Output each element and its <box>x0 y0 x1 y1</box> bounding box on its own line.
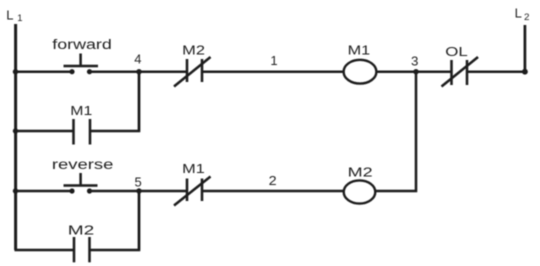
svg-text:2: 2 <box>524 12 530 23</box>
label M2 coil <box>348 165 373 180</box>
wire rung2 segment M1 contact to M2 coil <box>202 190 344 193</box>
svg-text:M1: M1 <box>348 43 371 58</box>
svg-text:M1: M1 <box>70 103 92 118</box>
label M1 seal-in <box>70 103 92 118</box>
wire node 4 vertical branch <box>138 72 141 131</box>
node L2 label <box>515 6 530 24</box>
node 1 label <box>270 53 277 68</box>
svg-text:M2: M2 <box>182 43 205 58</box>
contact M2 normally-open (seal-in) <box>74 237 90 262</box>
node 5 label <box>135 174 142 189</box>
label forward <box>52 37 112 52</box>
svg-text:reverse: reverse <box>52 157 114 172</box>
coil M2 <box>344 180 376 203</box>
node L1 label <box>6 8 22 25</box>
contact M2 normally-closed (rung1) <box>174 57 211 87</box>
wire node 5 vertical branch <box>138 191 141 250</box>
wire rung1 segment rail to forward button <box>15 70 73 73</box>
node 3 junction dot <box>413 69 418 74</box>
wire node 3 vertical to rung2 <box>376 72 417 191</box>
svg-text:1: 1 <box>17 13 22 24</box>
svg-text:L: L <box>6 8 13 23</box>
svg-text:5: 5 <box>135 174 142 189</box>
wire right rail L2 <box>524 25 527 72</box>
node 4 label <box>134 52 141 67</box>
wire M1 seal-in branch right to node 4 <box>90 72 139 131</box>
label M1 contact rung2 <box>182 161 205 176</box>
node 4 junction dot <box>136 69 141 74</box>
svg-text:M1: M1 <box>182 161 205 176</box>
wire rung2 segment rail to reverse button <box>15 190 73 193</box>
contact M1 normally-closed (rung2) <box>174 177 211 206</box>
wire rung2 segment reverse button to M1 contact <box>89 190 187 193</box>
wire rung1 segment forward button to M2 contact <box>89 70 187 73</box>
label M2 contact rung1 <box>182 43 205 58</box>
svg-text:2: 2 <box>269 173 277 188</box>
junction dot rail rung1 <box>13 69 18 74</box>
svg-text:M2: M2 <box>68 223 95 238</box>
label OL <box>445 44 468 59</box>
label reverse <box>52 157 114 172</box>
svg-text:L: L <box>515 6 522 21</box>
wire M2 seal-in branch left <box>15 249 75 252</box>
svg-text:forward: forward <box>52 37 112 52</box>
svg-text:4: 4 <box>134 52 141 67</box>
wire left rail L1 <box>14 24 17 250</box>
junction dot rail rung2 <box>13 188 18 193</box>
label M1 coil <box>348 43 371 58</box>
contact M1 normally-open (seal-in) <box>74 119 91 145</box>
wire rung1 segment M1 coil to OL contact <box>376 70 452 73</box>
node 3 label <box>411 54 418 69</box>
node 2 label <box>269 173 277 188</box>
wire M1 seal-in branch left <box>15 130 74 133</box>
pushbutton forward (NO) <box>64 54 99 75</box>
svg-text:OL: OL <box>445 44 468 59</box>
junction dot rail M1 branch <box>13 128 18 133</box>
svg-text:1: 1 <box>270 53 277 68</box>
label M2 seal-in <box>68 223 95 238</box>
node 5 junction dot <box>136 188 141 193</box>
coil M1 <box>344 60 377 84</box>
junction dot right rail <box>522 69 528 75</box>
svg-text:M2: M2 <box>348 165 373 180</box>
wire rung1 segment OL contact to right rail <box>467 70 526 73</box>
svg-text:3: 3 <box>411 54 418 69</box>
contact OL normally-closed (overload) <box>442 57 479 87</box>
pushbutton reverse (NO) <box>64 173 98 194</box>
wire M2 seal-in branch right to node 5 <box>90 191 140 250</box>
wire rung1 segment M2 contact to M1 coil <box>202 70 344 73</box>
